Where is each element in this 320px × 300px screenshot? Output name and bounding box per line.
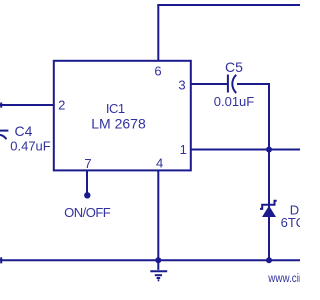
svg-text:ON/OFF: ON/OFF [64,205,111,220]
wire: input to pin 2 [0,104,54,106]
wire: pin 7 stub [86,170,88,193]
terminal tick on input wire [0,103,2,108]
svg-text:0.47uF: 0.47uF [10,138,51,153]
capacitor C5 left plate [227,75,229,93]
svg-text:6TQ045S: 6TQ045S [281,215,300,230]
svg-text:0.01uF: 0.01uF [214,94,255,109]
ground symbol [150,260,167,280]
wire: pin 4 down to ground rail [157,170,159,260]
svg-text:7: 7 [84,156,91,171]
svg-text:2: 2 [58,97,65,112]
wire: right vertical from C5 down to ground rail [268,84,270,260]
svg-text:3: 3 [178,78,185,93]
node: ON/OFF terminal dot [84,192,90,198]
diode D1 triangle (anode) [262,206,276,217]
svg-text:www.circuitstoday.com: www.circuitstoday.com [267,272,300,285]
junction: pin 4 wire on ground rail [155,257,161,263]
diode D1 schottky cathode bar [260,201,277,209]
junction: right vertical on ground rail [266,257,272,263]
wire: pin 6 up [157,5,159,61]
wire: top rail from pin 6 to right edge [157,4,300,6]
capacitor C4 top plate (clipped at left edge) [0,130,8,132]
wire: pin 1 to right edge [191,149,300,151]
wire: bottom ground rail [0,259,300,261]
terminal tick on ground rail left end [0,257,2,263]
svg-text:4: 4 [156,155,163,170]
IC U1 body (IC1 LM2678) [54,61,191,171]
svg-text:1: 1 [180,142,187,157]
capacitor C4 curved plate (clipped at left edge) [0,135,6,140]
svg-text:LM 2678: LM 2678 [91,116,146,132]
svg-text:C5: C5 [225,59,243,75]
junction: pin 1 wire and right vertical [266,147,272,153]
svg-text:IC1: IC1 [106,101,125,116]
svg-text:6: 6 [154,63,161,78]
capacitor C5 curved plate [232,75,236,93]
svg-text:C4: C4 [15,123,33,139]
wire: pin 3 to C5 [191,83,228,85]
wire: C5 to right vertical [237,83,270,85]
